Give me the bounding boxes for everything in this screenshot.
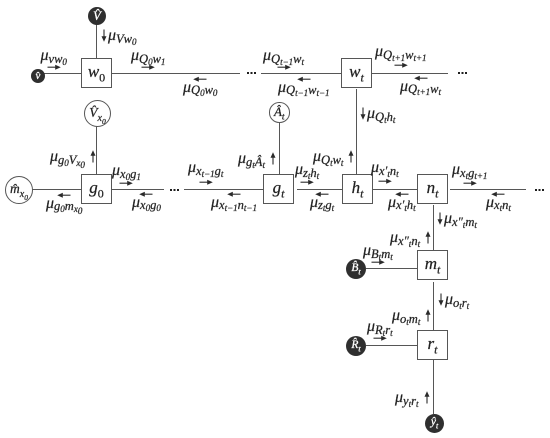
label mu_xpt_ht xyxy=(388,190,416,210)
label mu_xppt_mt xyxy=(436,211,477,227)
label mu_Qt_wt xyxy=(313,149,355,165)
label mu_gt_At xyxy=(238,151,277,167)
dots g0-gt xyxy=(170,189,172,191)
wire gt-ht xyxy=(297,189,342,190)
circle Vx0 (latent, open) xyxy=(84,100,111,127)
wire nt-mt xyxy=(433,205,434,251)
label mu_xt_gt+1 xyxy=(452,163,487,186)
node rt xyxy=(417,330,448,360)
label mu_zt_ht xyxy=(295,163,319,185)
wire rt-yt xyxy=(433,360,434,414)
label mu_xt-1_nt-1 xyxy=(211,190,257,210)
circle mx0 (latent, open) xyxy=(5,176,33,204)
circle yt (observed, dark) xyxy=(425,414,444,433)
node gt xyxy=(263,174,294,204)
label mu_xppt_nt xyxy=(390,230,432,246)
dots right of wt xyxy=(458,72,460,74)
node nt xyxy=(417,174,448,204)
label mu_Qt_ht xyxy=(359,106,395,122)
wire dots-gt xyxy=(184,189,263,190)
wire mx0-g0 xyxy=(31,189,82,190)
label mu_Rt_rt xyxy=(367,320,393,341)
dots right of nt xyxy=(535,189,537,191)
wire Bt-mt xyxy=(366,268,418,269)
wire Rt-rt xyxy=(366,345,418,346)
label mu_Bt_mt xyxy=(363,244,393,265)
circle At (latent, open) xyxy=(269,102,290,123)
label mu_Qt-1_wt-1 xyxy=(278,75,330,95)
wire Vx0-g0 xyxy=(96,125,97,174)
node mt xyxy=(417,250,448,280)
wire wt-right xyxy=(372,73,448,74)
label mu_g0_mx0 xyxy=(46,191,82,211)
wire nt-right xyxy=(450,189,526,190)
label mu_x0g0 xyxy=(132,190,161,210)
label mu_yt_rt xyxy=(395,390,431,406)
node w0 xyxy=(81,58,112,88)
label mu_ot_rt xyxy=(437,292,469,308)
label mu_Vw0 xyxy=(100,28,137,44)
node g0 xyxy=(81,174,112,204)
wire mt-rt xyxy=(433,282,434,330)
wire wt-ht xyxy=(356,89,357,175)
wire dots-wt xyxy=(261,73,341,74)
wire At-gt xyxy=(279,122,280,175)
wire w0-dots xyxy=(112,73,240,74)
wire g0-dots xyxy=(112,189,164,190)
label mu_vw0 xyxy=(41,49,67,70)
label mu_xt-1_gt xyxy=(188,161,223,185)
wire Vhat-w0 xyxy=(96,24,97,58)
label mu_ot_mt xyxy=(392,308,432,324)
label mu_Qt+1_wt xyxy=(400,74,441,94)
circle v hat (observed, dark) xyxy=(31,69,45,83)
node wt xyxy=(341,58,372,88)
circle Bt (observed, dark) xyxy=(346,259,366,279)
label mu_xt_nt xyxy=(486,190,511,210)
node ht xyxy=(342,174,373,204)
label mu_Q0w1 xyxy=(131,49,165,70)
wire ht-nt xyxy=(372,189,418,190)
circle Rt (observed, dark) xyxy=(346,336,366,356)
label mu_Qt-1_wt xyxy=(263,49,304,70)
label mu_xpt_nt xyxy=(371,161,399,184)
label mu_zt_gt xyxy=(310,190,334,210)
label mu_Qt+1_wt+1 xyxy=(375,45,427,68)
label mu_x0g1 xyxy=(112,164,141,186)
wire vhat-w0 xyxy=(44,73,82,74)
label mu_Q0w0 xyxy=(183,75,217,95)
label mu_g0_Vx0 xyxy=(50,149,97,165)
dots w0-wt xyxy=(247,72,249,74)
circle V hat (observed, dark) xyxy=(88,7,106,25)
